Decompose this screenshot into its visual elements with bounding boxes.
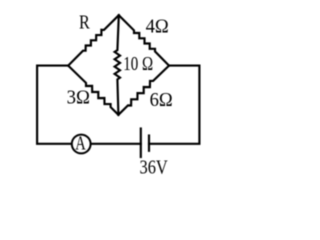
svg-text:R: R [79,13,90,34]
svg-text:36V: 36V [140,158,168,179]
svg-text:4Ω: 4Ω [146,16,169,37]
svg-text:10 Ω: 10 Ω [123,54,153,75]
svg-text:3Ω: 3Ω [67,88,90,109]
svg-text:A: A [75,133,86,154]
svg-text:6Ω: 6Ω [150,90,173,111]
